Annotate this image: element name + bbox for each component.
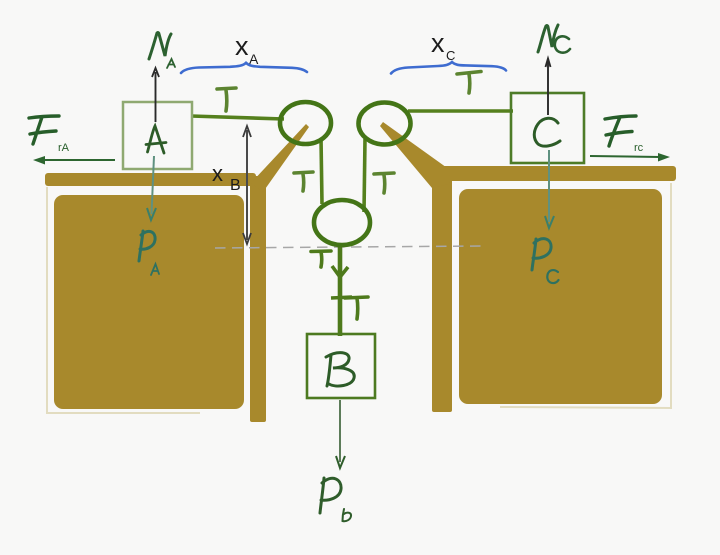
label B xyxy=(326,353,354,386)
rope right pulley to C xyxy=(408,109,513,113)
dashed reference line xyxy=(215,246,484,248)
rope right pulley down xyxy=(364,139,365,212)
normal force NC arrow xyxy=(547,60,549,115)
label C xyxy=(534,118,560,146)
label T left vertical rope xyxy=(294,172,313,191)
block C xyxy=(511,93,584,163)
svg-text:x: x xyxy=(431,28,445,58)
label PA xyxy=(139,231,155,261)
label A xyxy=(146,126,166,153)
svg-text:B: B xyxy=(230,177,241,194)
weight PC arrow xyxy=(548,150,550,222)
svg-text:x: x xyxy=(235,31,249,61)
right table leg xyxy=(432,178,452,412)
friction force left arrow xyxy=(38,159,115,161)
label NC xyxy=(538,25,558,52)
rope bottom pulley to block B xyxy=(338,243,343,336)
tension tick on bottom rope xyxy=(331,297,352,298)
weight PB arrow xyxy=(339,400,341,462)
friction force left label xyxy=(29,116,59,144)
label T above right rope xyxy=(457,72,481,94)
block B xyxy=(307,334,375,398)
right table top bar xyxy=(440,166,676,181)
label NA xyxy=(149,33,171,59)
right table body xyxy=(459,189,662,404)
left table corner wedge xyxy=(251,124,309,192)
bottom pulley xyxy=(314,200,370,245)
label PB xyxy=(320,478,341,513)
left table top bar xyxy=(45,173,256,186)
rope A to left pulley xyxy=(191,116,284,119)
svg-text:rA: rA xyxy=(58,142,70,154)
label T above left rope xyxy=(217,88,236,111)
dimension xB line xyxy=(246,130,248,240)
right pulley xyxy=(359,103,411,145)
rope left pulley down xyxy=(321,138,322,204)
left table leg xyxy=(250,176,266,422)
left table faint outline xyxy=(47,187,200,413)
tension arrowhead on bottom rope xyxy=(332,266,348,277)
left pulley xyxy=(280,102,331,144)
friction force right arrow xyxy=(590,156,660,157)
right table faint outline xyxy=(500,183,671,408)
normal force NA arrow xyxy=(155,72,157,122)
label T below bottom pulley xyxy=(311,251,331,267)
right blue brace xyxy=(391,62,506,74)
right table corner wedge xyxy=(380,122,450,188)
left table body xyxy=(54,195,244,409)
left blue brace xyxy=(181,63,307,73)
friction force right label xyxy=(605,116,636,146)
label T right vertical rope xyxy=(374,173,394,193)
svg-text:x: x xyxy=(212,161,223,186)
svg-text:rc: rc xyxy=(634,142,644,154)
label PC xyxy=(532,239,551,270)
block A xyxy=(123,102,192,169)
weight PA arrow xyxy=(152,156,155,214)
label T above block B xyxy=(345,297,368,319)
svg-text:C: C xyxy=(446,48,455,63)
